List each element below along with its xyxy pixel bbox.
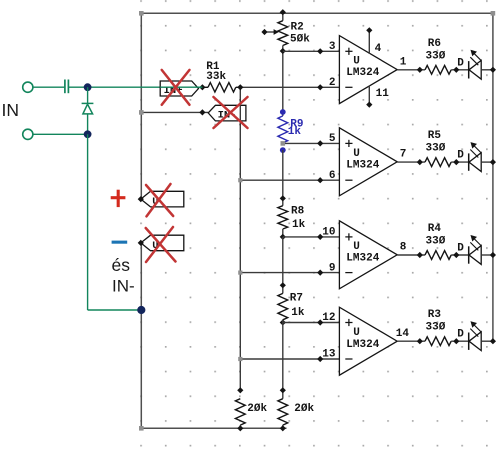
handle IN- rail junction xyxy=(139,110,144,115)
wire top rail xyxy=(141,12,493,14)
svg-text:6: 6 xyxy=(329,170,336,182)
svg-text:33Ø: 33Ø xyxy=(426,236,446,248)
wire pin9 xyxy=(240,272,339,274)
node junction cap/diode xyxy=(84,83,92,91)
svg-text:2Øk: 2Øk xyxy=(294,403,314,415)
svg-text:IN: IN xyxy=(2,100,20,120)
svg-text:5Øk: 5Øk xyxy=(290,34,310,46)
svg-text:LM324: LM324 xyxy=(346,339,379,351)
svg-text:R7: R7 xyxy=(290,293,303,305)
node output junction 2 xyxy=(417,159,423,165)
svg-text:LM324: LM324 xyxy=(346,67,379,79)
node pin 11 xyxy=(366,102,372,108)
svg-text:11: 11 xyxy=(376,88,390,100)
resistor 20k right xyxy=(278,399,288,425)
wire pin 4 lead xyxy=(368,30,370,54)
svg-text:8: 8 xyxy=(400,242,407,254)
wire tap pin10 xyxy=(283,236,340,238)
svg-text:R6: R6 xyxy=(428,38,441,50)
resistor R6 xyxy=(425,65,451,74)
node LED left junction 2 xyxy=(453,159,459,165)
op-amp U4 LM324 xyxy=(339,307,397,375)
terminal input 2 xyxy=(23,129,33,139)
wire R2 wiper xyxy=(265,31,276,33)
wire LED to rail 4 xyxy=(481,340,493,342)
terminal input 1 xyxy=(23,82,33,92)
node LED left junction 4 xyxy=(453,338,459,344)
wire 20k left bottom xyxy=(239,425,241,428)
potentiometer R2 xyxy=(278,21,288,46)
node R9 top pin xyxy=(280,109,286,115)
svg-text:1k: 1k xyxy=(292,219,306,231)
svg-text:7: 7 xyxy=(400,149,407,161)
svg-text:10: 10 xyxy=(322,227,335,239)
handle top-right xyxy=(491,11,496,16)
node output junction 4 xyxy=(417,338,423,344)
wire R2 to R9 xyxy=(282,46,284,116)
red X over U+ xyxy=(146,184,173,216)
node pin 10 xyxy=(317,234,323,240)
wire input2 xyxy=(33,133,87,135)
node R1 right xyxy=(237,84,243,90)
svg-text:D: D xyxy=(457,57,464,69)
op-amp U1 LM324 xyxy=(339,36,397,104)
capacitor C1 xyxy=(65,80,69,94)
resistor R8 xyxy=(278,206,288,229)
node tap pin10 xyxy=(280,234,286,240)
wire C1 to R1 (through IN+ port) xyxy=(68,86,202,88)
red plus annotation xyxy=(111,190,126,207)
handle bus pin6 junction xyxy=(238,178,242,182)
node R1 left xyxy=(199,84,205,90)
node 20k right top xyxy=(280,387,286,393)
svg-text:4: 4 xyxy=(375,43,382,55)
resistor R1 xyxy=(202,86,208,88)
svg-text:és: és xyxy=(112,255,131,275)
node pin 3 xyxy=(317,48,323,54)
wire input1 to C1 xyxy=(33,86,64,88)
handle bottom-left xyxy=(139,426,144,431)
wire output to R4 xyxy=(397,254,425,256)
handle top-left xyxy=(139,11,144,16)
node rail junction 1 xyxy=(490,67,496,73)
wire left rail upper xyxy=(140,13,142,199)
port IN- (crossed out) xyxy=(208,105,246,121)
svg-text:2: 2 xyxy=(329,77,336,89)
svg-text:D: D xyxy=(457,329,464,341)
port IN+ (crossed out) xyxy=(160,81,198,96)
svg-text:14: 14 xyxy=(396,328,410,340)
node R8 top xyxy=(280,195,286,201)
wire output to R5 xyxy=(397,161,425,163)
wire LED to rail 3 xyxy=(481,254,493,256)
wire LED to rail 1 xyxy=(481,69,493,71)
node R7 top xyxy=(280,282,286,288)
blue minus annotation xyxy=(112,241,128,244)
wire pin 11 lead xyxy=(368,86,370,105)
wire bus through port xyxy=(239,105,241,121)
svg-text:33k: 33k xyxy=(206,71,226,83)
node rail junction 4 xyxy=(490,338,496,344)
node junction input2 xyxy=(84,130,92,138)
wire R7 to 20k xyxy=(282,320,284,399)
svg-text:9: 9 xyxy=(329,262,336,274)
svg-text:U: U xyxy=(353,148,360,160)
svg-text:U: U xyxy=(353,327,360,339)
wire LED to rail 2 xyxy=(481,161,493,163)
wire R5 to LED xyxy=(451,161,468,163)
svg-text:D: D xyxy=(457,150,464,162)
node IN- junction xyxy=(199,109,205,115)
handle bus pin13 junction xyxy=(238,357,242,361)
wire R8 to pin10 tap xyxy=(282,229,284,237)
wire R4 to LED xyxy=(451,254,468,256)
wire junction to diode xyxy=(87,87,89,103)
resistor 20k left xyxy=(235,399,245,425)
node output junction 1 xyxy=(417,67,423,73)
red X over IN- xyxy=(214,97,248,128)
resistor R3 xyxy=(425,337,451,346)
wire green over IN+ port xyxy=(160,86,202,88)
svg-text:1: 1 xyxy=(400,56,407,68)
op-amp U3 LM324 xyxy=(339,221,397,289)
node pin 2 xyxy=(317,84,323,90)
R2 wiper arrowhead xyxy=(274,29,279,35)
svg-text:33Ø: 33Ø xyxy=(426,322,446,334)
resistor R5 xyxy=(425,158,451,167)
svg-text:1k: 1k xyxy=(291,307,305,319)
wire right rail xyxy=(492,13,494,341)
node LED left junction 1 xyxy=(453,67,459,73)
svg-text:LM324: LM324 xyxy=(346,252,379,264)
svg-text:3: 3 xyxy=(329,41,336,53)
node pin 4 xyxy=(366,27,372,33)
handle tap pin5 xyxy=(281,141,286,146)
svg-text:12: 12 xyxy=(322,312,335,324)
node pin 13 xyxy=(317,356,323,362)
svg-text:R3: R3 xyxy=(428,309,442,321)
LED D2 xyxy=(468,153,470,170)
op-amp U2 LM324 xyxy=(339,128,397,196)
wire tap pin3 xyxy=(283,50,340,52)
node R9 bottom pin xyxy=(280,147,286,153)
svg-text:IN-: IN- xyxy=(112,276,135,295)
node LED left junction 3 xyxy=(453,252,459,258)
wire R8 to R7 xyxy=(282,237,284,294)
svg-text:U: U xyxy=(353,56,360,68)
wire pin13 xyxy=(240,358,339,360)
node 20k right bottom xyxy=(280,425,286,431)
LED D1 xyxy=(468,61,470,78)
wire R3 to LED xyxy=(451,340,468,342)
wire IN- to left rail xyxy=(141,111,208,113)
node junction green to rail xyxy=(137,306,145,314)
wire tap pin12 xyxy=(283,322,340,324)
node pin 5 xyxy=(317,140,323,146)
svg-text:2Øk: 2Øk xyxy=(247,403,267,415)
node output junction 3 xyxy=(417,252,423,258)
node pin 9 xyxy=(317,270,323,276)
resistor R4 xyxy=(425,251,451,260)
wire ground horizontal green xyxy=(88,309,142,311)
node U+ tip xyxy=(138,196,144,202)
wire bottom rail xyxy=(141,427,286,429)
node tap pin3 xyxy=(280,48,286,54)
resistor R7 xyxy=(278,293,288,319)
red X over U- xyxy=(146,227,176,262)
node tap pin12 xyxy=(280,319,286,325)
resistor R9 (selected) xyxy=(278,116,288,143)
handle bus pin9 junction xyxy=(238,271,242,275)
svg-text:33Ø: 33Ø xyxy=(426,143,446,155)
wire tap pin5 xyxy=(283,142,340,144)
wire output to R6 xyxy=(397,69,425,71)
LED D4 xyxy=(468,333,470,350)
wire R6 to LED xyxy=(451,69,468,71)
LED D3 xyxy=(468,246,470,263)
wire left rail lower xyxy=(140,243,142,428)
svg-text:5: 5 xyxy=(329,133,336,145)
svg-text:13: 13 xyxy=(322,349,336,361)
svg-text:R4: R4 xyxy=(428,223,442,235)
node U- tip xyxy=(138,240,144,246)
svg-text:R2: R2 xyxy=(291,22,304,34)
wire pin2 xyxy=(240,86,339,88)
node R2 wiper end xyxy=(261,29,267,35)
node rail junction 3 xyxy=(490,252,496,258)
svg-text:33Ø: 33Ø xyxy=(426,50,446,62)
wire diode to input2 node xyxy=(87,114,89,134)
wire input bus vertical xyxy=(239,87,241,390)
svg-text:R9: R9 xyxy=(290,119,303,131)
node rail junction 2 xyxy=(490,159,496,165)
red X over IN+ xyxy=(162,70,190,105)
svg-text:D: D xyxy=(457,243,464,255)
node pin 6 xyxy=(317,177,323,183)
port U- (crossed out) xyxy=(141,235,184,251)
node 20k left bottom xyxy=(237,425,243,431)
wire pin6 xyxy=(240,179,339,181)
svg-text:U: U xyxy=(353,241,360,253)
wire R9 to R8 xyxy=(282,150,284,206)
node 20k left top xyxy=(237,387,243,393)
svg-text:LM324: LM324 xyxy=(346,159,379,171)
node pin 12 xyxy=(317,319,323,325)
port U+ (crossed out) xyxy=(141,191,184,207)
wire 20k right bottom xyxy=(282,425,284,428)
svg-text:R5: R5 xyxy=(428,130,442,142)
wire ground vertical green xyxy=(87,134,89,310)
diode D1 xyxy=(82,103,94,114)
wire output to R3 xyxy=(397,340,425,342)
wire R2 top lead xyxy=(282,12,284,21)
svg-text:R8: R8 xyxy=(291,206,305,218)
node R2 top xyxy=(280,9,286,15)
